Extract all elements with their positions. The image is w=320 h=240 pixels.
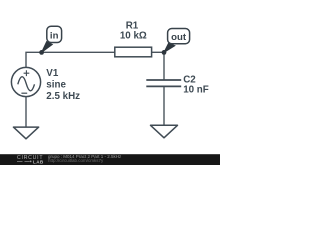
V1 sine wave bbox=[18, 77, 35, 91]
node out: flag box bbox=[168, 29, 190, 44]
wire: out junction down to C2 bbox=[163, 52, 165, 80]
footer logo: dashes bbox=[17, 160, 30, 162]
ground (right, under C2) bbox=[151, 125, 178, 138]
svg-text:sine: sine bbox=[46, 79, 66, 90]
node out: flag tail bbox=[164, 43, 175, 52]
node out: junction dot bbox=[162, 50, 167, 55]
resistor R1 bbox=[115, 47, 152, 57]
svg-text:V1: V1 bbox=[46, 68, 59, 79]
V1 plus sign bbox=[24, 70, 30, 76]
svg-text:http://circuitlab.com/cmks7y: http://circuitlab.com/cmks7y bbox=[48, 158, 104, 163]
wire: V1 bottom to left ground bbox=[25, 97, 27, 128]
svg-text:out: out bbox=[171, 32, 187, 43]
V1 minus sign bbox=[21, 92, 27, 94]
svg-text:10 nF: 10 nF bbox=[183, 85, 209, 96]
wire: C2 bottom to right ground bbox=[163, 86, 165, 125]
capacitor C2 bbox=[146, 80, 181, 86]
wire: V1 top to R1 left bbox=[26, 52, 115, 67]
svg-text:in: in bbox=[50, 31, 59, 42]
node in: junction dot bbox=[39, 50, 44, 55]
footer bar bbox=[0, 154, 220, 165]
node in: flag tail bbox=[42, 42, 53, 53]
svg-text:2.5 kHz: 2.5 kHz bbox=[46, 91, 80, 102]
svg-text:10 kΩ: 10 kΩ bbox=[120, 31, 147, 42]
node in: flag box bbox=[47, 26, 62, 42]
footer logo: node mark bbox=[30, 161, 32, 163]
voltage source V1 circle bbox=[11, 67, 40, 96]
ground (left, under V1) bbox=[13, 127, 38, 139]
svg-text:LAB: LAB bbox=[33, 159, 44, 164]
wire: R1 right to out junction bbox=[152, 51, 164, 53]
